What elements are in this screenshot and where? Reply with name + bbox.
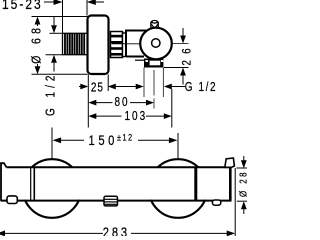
svg-text:±12: ±12 <box>117 133 134 143</box>
svg-text:150: 150 <box>89 133 118 148</box>
svg-text:283: 283 <box>103 225 130 236</box>
svg-text:25: 25 <box>91 81 104 94</box>
svg-text:15-23: 15-23 <box>2 0 43 12</box>
svg-text:Ø 28: Ø 28 <box>238 170 247 197</box>
svg-text:Ø 68: Ø 68 <box>29 24 43 64</box>
svg-text:103: 103 <box>125 110 148 123</box>
svg-text:G 1/2: G 1/2 <box>45 72 58 116</box>
svg-text:G 1/2: G 1/2 <box>185 81 217 94</box>
svg-text:26: 26 <box>180 42 193 65</box>
svg-text:80: 80 <box>115 96 130 109</box>
